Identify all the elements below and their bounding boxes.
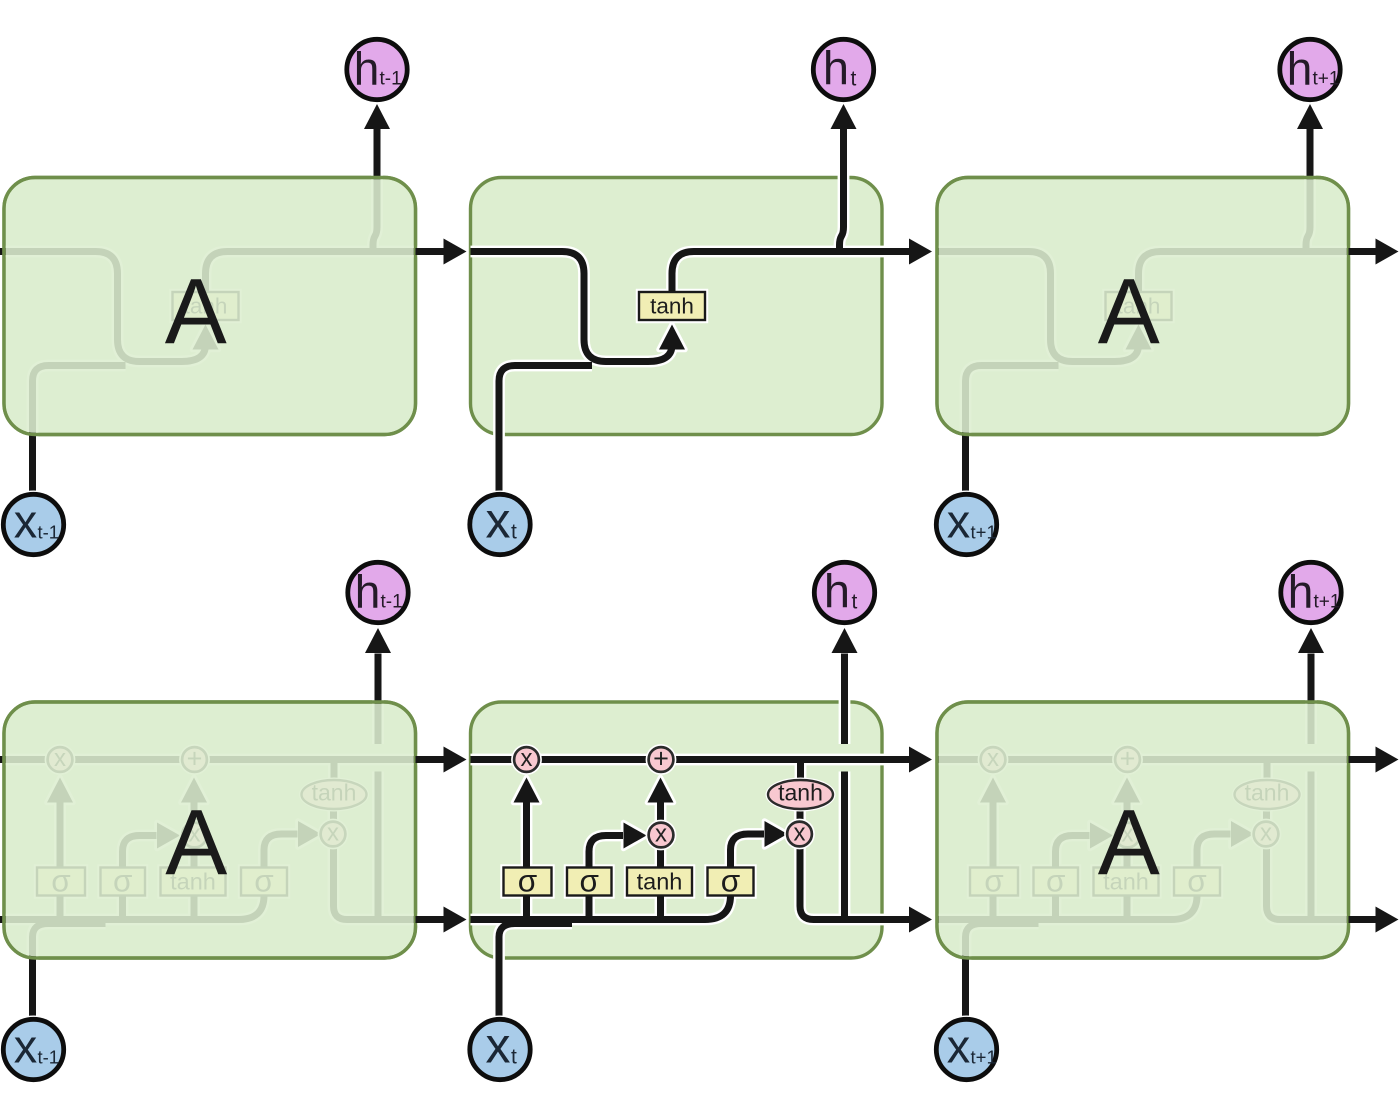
svg-text:t: t [511, 521, 517, 544]
node x(t+1) top [933, 491, 1001, 559]
hidden-state arrow A(t) to A(t+1) [882, 916, 914, 923]
cell-state arrow A(t) to A(t+1) [882, 756, 914, 763]
RNN middle cell internals [471, 104, 891, 495]
node x(t-1) bottom [0, 1016, 68, 1084]
svg-text:A: A [165, 790, 227, 894]
node h(t-1) bottom [344, 559, 412, 627]
LSTM cell A(t-1) fade wash [6, 704, 414, 957]
cell-state arrow A(t+1) out [1349, 756, 1381, 763]
node h(t) bottom [811, 559, 879, 627]
svg-text:t+1: t+1 [971, 522, 997, 543]
node x(t-1) top [0, 491, 68, 559]
hidden-state arrow A(t+1) out [1349, 916, 1381, 923]
svg-text:A: A [1098, 790, 1160, 894]
cell-state arrow A(t-1) to A(t) [416, 756, 449, 763]
node x(t) top [466, 491, 534, 559]
LSTM middle cell box [471, 702, 883, 958]
chain arrow A(t-1) to A(t) [416, 248, 449, 255]
wire: hidden-state stub entering left edge (bottom row) [0, 916, 7, 923]
svg-text:t+1: t+1 [1314, 592, 1341, 613]
LSTM cell A(t-1) border [4, 702, 416, 958]
LSTM cell A(t-1) box [4, 702, 416, 958]
node x(t) bottom [466, 1016, 534, 1084]
RNN middle cell box [471, 178, 883, 435]
svg-text:t-1: t-1 [381, 592, 403, 613]
RNN cell A(t-1) box [4, 178, 416, 435]
LSTM middle cell internals [471, 628, 891, 1017]
svg-text:t: t [852, 591, 858, 614]
chain arrow A(t) to A(t+1) [882, 248, 914, 255]
node h(t) top [810, 36, 878, 104]
svg-text:t: t [511, 1046, 517, 1069]
svg-text:x: x [14, 1020, 38, 1073]
svg-text:A: A [1098, 259, 1160, 363]
svg-text:h: h [355, 566, 381, 618]
svg-text:x: x [486, 1018, 511, 1074]
node h(t-1) top [343, 36, 411, 104]
wire: cell-state stub entering left edge (bottom row) [0, 756, 7, 763]
svg-text:t: t [851, 68, 857, 91]
svg-text:t+1: t+1 [971, 1047, 997, 1068]
node h(t+1) top [1276, 36, 1344, 104]
RNN cell A(t-1) fade wash [6, 179, 414, 433]
svg-text:t-1: t-1 [380, 69, 402, 90]
RNN cell A(t+1) fade wash [939, 179, 1347, 433]
svg-text:t+1: t+1 [1313, 69, 1340, 90]
RNN cell A(t+1) border [937, 178, 1349, 435]
svg-text:x: x [14, 495, 38, 548]
LSTM cell A(t+1) fade wash [939, 704, 1347, 957]
wire: chain stub entering left edge (top row) [0, 248, 7, 255]
RNN cell A(t+1) box [937, 178, 1349, 435]
svg-text:h: h [824, 565, 850, 618]
svg-text:h: h [1287, 43, 1313, 95]
svg-text:h: h [823, 42, 849, 95]
LSTM cell A(t+1) border [937, 702, 1349, 958]
svg-text:t-1: t-1 [38, 1047, 60, 1068]
hidden-state arrow A(t-1) to A(t) [416, 916, 449, 923]
node h(t+1) bottom [1277, 559, 1345, 627]
RNN cell A(t-1) border [4, 178, 416, 435]
svg-text:A: A [165, 259, 227, 363]
node x(t+1) bottom [933, 1016, 1001, 1084]
svg-text:x: x [947, 1020, 971, 1073]
svg-text:h: h [1288, 566, 1314, 618]
svg-text:x: x [486, 493, 511, 549]
svg-text:h: h [354, 43, 380, 95]
svg-text:x: x [947, 495, 971, 548]
LSTM cell A(t+1) box [937, 702, 1349, 958]
chain arrow A(t+1) out [1349, 248, 1381, 255]
svg-text:t-1: t-1 [38, 522, 60, 543]
